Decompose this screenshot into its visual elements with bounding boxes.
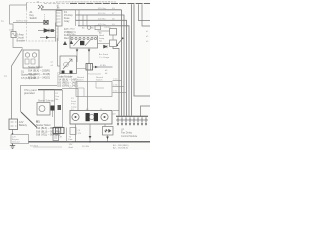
svg-text:A1 – 920 (RED): A1 – 920 (RED) — [113, 144, 129, 147]
wire terminal drop — [52, 111, 54, 118]
wire run1 drop — [121, 10, 123, 116]
wire switch lead left — [76, 48, 78, 62]
lamp L2 — [101, 113, 108, 120]
wire module to neutral — [77, 68, 87, 70]
lamp L1 — [72, 113, 79, 120]
svg-text:20A: 20A — [9, 29, 13, 32]
diode D2 inside module — [63, 59, 72, 69]
connector symbol X2 — [38, 5, 44, 9]
svg-text:Starter Solenoid: Starter Solenoid — [38, 100, 55, 103]
node left margin vertical — [26, 3, 28, 11]
svg-text:ACC Org: ACC Org — [67, 31, 77, 34]
wire engine boundary — [21, 86, 58, 113]
node CB1 label — [17, 34, 26, 43]
wire boundary diagonal — [21, 112, 37, 128]
svg-text:Front: Front — [71, 100, 76, 103]
wire breaker to solenoid — [13, 38, 23, 48]
wire relay out — [113, 47, 119, 116]
svg-text:Battery: Battery — [19, 124, 28, 127]
svg-text:K2 Rly: K2 Rly — [105, 27, 112, 29]
node neutral label — [77, 73, 104, 82]
wire relay link — [112, 35, 114, 40]
svg-text:6G: 6G — [112, 8, 115, 10]
lamp panel box — [70, 111, 112, 125]
wire dash-panel boundary top light — [44, 3, 70, 5]
svg-text:Head: Head — [99, 35, 105, 37]
svg-text:A2 – 914 (BLK): A2 – 914 (BLK) — [113, 147, 128, 150]
node relay junction b — [122, 37, 124, 39]
node pilot circle — [87, 26, 91, 30]
starter solenoid S1 — [23, 50, 39, 68]
node harness segment box — [55, 90, 63, 127]
node F2 text — [64, 28, 73, 40]
fuse holder F4 — [103, 127, 114, 136]
svg-text:B+ Red: B+ Red — [67, 29, 75, 31]
wire stub row3 — [113, 92, 127, 94]
wire ladder run 3 — [76, 20, 127, 116]
pin row rings — [117, 119, 147, 121]
node J1 side text — [69, 136, 74, 148]
node J1 sub box — [53, 135, 59, 141]
wire relay arm — [117, 38, 123, 45]
solenoid coil B1 — [37, 103, 50, 116]
svg-text:45 Blk: 45 Blk — [100, 65, 107, 67]
node A/C legend — [99, 53, 110, 59]
svg-text:Red: Red — [64, 37, 69, 40]
node front PTO label — [71, 98, 77, 108]
neutral switch S3 — [86, 64, 93, 71]
wire module lead — [58, 38, 61, 67]
svg-text:PTO: PTO — [71, 104, 76, 106]
node K3 circle — [89, 114, 94, 119]
svg-text:Switch: Switch — [30, 17, 38, 20]
node module circle — [64, 62, 69, 67]
wire lower row — [40, 38, 56, 42]
node module label — [121, 129, 138, 138]
relay K2 contact — [110, 40, 117, 47]
svg-text:925 (GRN) – 34(G): 925 (GRN) – 34(G) — [57, 85, 78, 88]
svg-text:420 Blu: 420 Blu — [98, 19, 106, 21]
svg-text:5A Red 922: 5A Red 922 — [16, 19, 28, 22]
svg-text:3.5 (6.5) 20M: 3.5 (6.5) 20M — [21, 77, 36, 80]
node relay junction a — [117, 45, 119, 47]
relay block K3 left pad — [86, 113, 90, 121]
node S1 label — [21, 71, 36, 80]
wire left battery feed upper — [10, 5, 14, 32]
wire solenoid box top — [38, 89, 62, 91]
svg-text:Breaker: Breaker — [17, 40, 26, 43]
node bottom right note — [113, 144, 129, 150]
wire top edge — [10, 4, 27, 6]
svg-text:Gray: Gray — [64, 20, 70, 23]
svg-text:15 20 25 30 35 40 45 50 55 60: 15 20 25 30 35 40 45 50 55 60 65 70 75 8… — [56, 1, 117, 3]
key switch K1 dashed enclosure — [27, 3, 58, 42]
node neutral switch box — [76, 82, 112, 97]
pin C1 pad — [62, 71, 65, 74]
svg-text:B1: B1 — [36, 120, 40, 124]
ignition switch assembly S2 — [67, 27, 98, 49]
wire main bus top — [41, 9, 122, 11]
svg-text:4G: 4G — [112, 24, 115, 26]
node pilot box — [95, 26, 101, 30]
wire stub row1 — [113, 80, 122, 82]
node F1 text — [64, 11, 73, 23]
connector bowtie X1 — [44, 21, 48, 25]
svg-text:410 Yel: 410 Yel — [98, 13, 106, 15]
wire ladder run 4 — [78, 26, 129, 116]
wire fuse drop left — [57, 26, 59, 41]
wire neutral drop — [87, 70, 89, 111]
wire switch feed — [76, 10, 88, 26]
svg-text:914 Blk: 914 Blk — [82, 146, 90, 148]
svg-text:C = Cargo: C = Cargo — [99, 56, 110, 59]
svg-text:PJ: PJ — [71, 109, 73, 111]
wire lamp drop 1 — [75, 124, 77, 142]
node legend left block — [28, 66, 50, 80]
wire stub row2 — [113, 86, 125, 88]
wire switch column — [55, 23, 57, 38]
svg-text:Control Module: Control Module — [121, 135, 138, 138]
wire C2 run — [62, 89, 78, 111]
node lead arrowhead left — [76, 50, 79, 52]
wire mid row — [38, 30, 56, 32]
svg-text:C 5c: C 5c — [113, 91, 117, 93]
node S1 coil circles — [25, 53, 29, 57]
node header text row — [56, 1, 117, 3]
wire neutral out — [93, 66, 113, 68]
node right edge tiny labels — [146, 31, 149, 43]
node lead arrowhead right — [88, 50, 91, 52]
relay K2 coil — [110, 29, 117, 36]
pin C2 pad — [70, 71, 73, 74]
wire lower right feed — [141, 106, 151, 116]
svg-text:Transmission: Transmission — [88, 73, 102, 76]
node junction bottom — [89, 141, 91, 143]
connector J1 pin block — [53, 128, 64, 134]
node fuse out triangles — [63, 41, 67, 45]
circuit breaker CB1 — [11, 32, 16, 38]
battery BT1 — [9, 119, 18, 130]
pin row arrowheads — [117, 123, 147, 125]
wire harness boundary dark dashed — [70, 3, 150, 5]
node legend right block — [57, 73, 78, 88]
wire J1 drop — [66, 128, 68, 142]
wire lower gray run — [33, 146, 62, 148]
svg-text:Lamp: Lamp — [99, 38, 105, 40]
pin row ticks upper — [118, 116, 146, 118]
wire solenoid feed — [43, 90, 45, 103]
wire ground bus bottom — [29, 141, 151, 143]
svg-text:A = Front: A = Front — [99, 53, 108, 56]
node drop arrowhead — [89, 136, 92, 139]
node arrowhead lower — [46, 36, 49, 39]
svg-text:Sw: Sw — [99, 41, 102, 43]
svg-text:Mtr: Mtr — [56, 98, 59, 101]
node S1 inner contacts — [25, 59, 29, 64]
wire bus exit c — [142, 4, 150, 26]
wire ladder run 2 — [76, 15, 125, 116]
node stub labels — [113, 79, 118, 93]
node solenoid note text — [24, 89, 37, 95]
relay block K3 right pad — [94, 113, 98, 121]
node small box C6 — [70, 128, 76, 135]
node arrowhead — [95, 66, 98, 69]
svg-text:12V: 12V — [78, 133, 82, 135]
wire switch to relay upper — [98, 30, 110, 32]
svg-text:920 Red: 920 Red — [30, 146, 39, 148]
ground symbol — [10, 144, 15, 149]
svg-text:Neutral: Neutral — [77, 76, 85, 79]
wire b20 stub — [113, 110, 119, 112]
wire switch to relay lower — [98, 43, 110, 45]
wire lamp drop 3 — [105, 124, 108, 142]
pin row ticks lower — [118, 121, 146, 123]
node harness pad — [58, 105, 62, 110]
svg-text:grounded: grounded — [24, 92, 35, 95]
wire bus from bar a — [131, 4, 133, 116]
wire dashed stub above — [44, 14, 46, 20]
node ground note box — [11, 135, 29, 144]
node junction — [12, 133, 14, 135]
fuse block F1 — [56, 11, 62, 27]
wire lamp drop 2 — [89, 124, 91, 142]
node battery label — [19, 121, 28, 127]
node solenoid terminal — [51, 106, 55, 111]
diode D1 — [44, 29, 49, 33]
svg-text:Ground: Ground — [12, 141, 20, 144]
wire connector bar — [116, 115, 148, 117]
wire solenoid to battery diagonal — [12, 49, 23, 120]
wire bus exit b — [139, 4, 151, 20]
node headlight text — [99, 32, 105, 43]
diode module U1 — [60, 56, 77, 74]
wire battery negative — [12, 130, 14, 135]
node K1 label — [30, 11, 38, 20]
node starter legend — [36, 124, 61, 137]
svg-text:615 Gry: 615 Gry — [98, 7, 107, 10]
diode D3 near relay — [104, 45, 108, 48]
wire switch lead right — [88, 48, 90, 64]
wire key feed — [13, 22, 48, 24]
svg-text:Mtr: Mtr — [69, 141, 72, 144]
node contact mark — [51, 29, 54, 32]
svg-text:PJ: PJ — [71, 98, 74, 100]
svg-text:Neutral: Neutral — [96, 76, 104, 79]
wire bus from bar b — [134, 4, 150, 96]
svg-text:Lamp: Lamp — [71, 106, 77, 108]
